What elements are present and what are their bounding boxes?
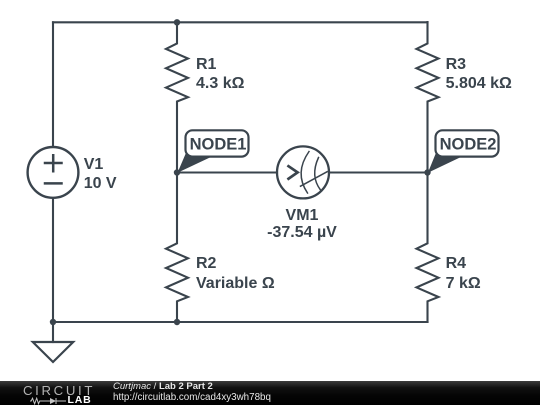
resistor R4 xyxy=(417,173,439,322)
wire middle right (voltmeter to node2) xyxy=(329,171,428,173)
label R3 value 5.804 kOhm xyxy=(446,76,512,92)
footer url line xyxy=(113,393,271,403)
label R2 name xyxy=(196,256,216,272)
footer bar xyxy=(0,381,540,405)
label R1 name xyxy=(196,57,216,73)
voltage source V1 xyxy=(28,147,79,198)
wire top horizontal xyxy=(53,21,428,23)
label VM1 name xyxy=(286,208,319,224)
wire bottom horizontal xyxy=(53,321,428,323)
svg-text:NODE1: NODE1 xyxy=(190,136,247,154)
node NODE2 flag xyxy=(428,130,499,173)
wire left vertical upper (V1 top lead) xyxy=(52,22,54,147)
label V1 name xyxy=(84,157,104,173)
label R3 name xyxy=(446,57,466,73)
label R1 value 4.3 kOhm xyxy=(196,76,244,92)
label R2 value Variable Ohm xyxy=(196,276,275,292)
wire left vertical lower (V1 bottom lead) xyxy=(52,198,54,322)
junction bottom (R2/bottom wire) xyxy=(174,319,180,325)
label R4 value 7 kOhm xyxy=(446,276,481,292)
node NODE1 flag xyxy=(178,130,249,173)
junction top (R1/top wire) xyxy=(174,19,180,25)
ground xyxy=(33,322,73,362)
label V1 value 10 V xyxy=(84,176,117,192)
resistor R3 xyxy=(417,22,439,173)
label R4 name xyxy=(446,256,466,272)
svg-text:NODE2: NODE2 xyxy=(440,136,497,154)
wire middle left (node1 to voltmeter) xyxy=(177,171,277,173)
footer credit line xyxy=(113,382,213,392)
voltmeter VM1 xyxy=(277,146,329,198)
logo resistor-diode glyph xyxy=(30,397,67,405)
label VM1 value xyxy=(267,225,337,241)
logo LAB text xyxy=(68,395,92,405)
resistor R1 xyxy=(166,22,188,173)
logo CIRCUIT text xyxy=(23,384,95,397)
junction bottom left (ground) xyxy=(50,319,56,325)
node NODE2 junction xyxy=(424,169,430,175)
resistor R2 xyxy=(166,173,188,322)
node NODE1 junction xyxy=(174,169,180,175)
